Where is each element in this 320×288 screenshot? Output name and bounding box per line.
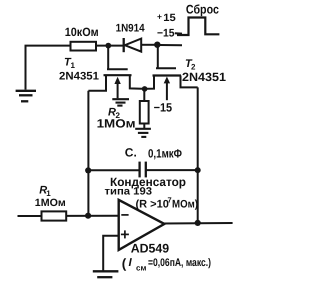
wire plus input to ground bbox=[103, 236, 119, 271]
wire top-left corner bbox=[26, 46, 71, 90]
reset pulse waveform bbox=[177, 18, 219, 36]
wire output bbox=[163, 222, 233, 225]
svg-text:10кОм: 10кОм bbox=[65, 25, 99, 39]
svg-text:(: ( bbox=[122, 256, 127, 271]
wire stub node B to reset pulse bbox=[160, 44, 182, 46]
svg-text:1МОм: 1МОм bbox=[35, 197, 66, 209]
transistor Q2 gate lead bbox=[157, 45, 159, 68]
capacitor C plates bbox=[138, 162, 140, 178]
node F junction dot bbox=[85, 167, 91, 173]
ground G2 under Q1 body bbox=[112, 99, 129, 105]
wire resistor to diode bbox=[96, 45, 123, 47]
transistor Q2 drain lead bbox=[147, 76, 154, 89]
svg-text:типа 193: типа 193 bbox=[105, 185, 153, 197]
transistor Q1 source lead bbox=[130, 75, 142, 89]
wire input stub bbox=[18, 215, 42, 217]
transistor Q1 gate lead bbox=[107, 46, 109, 70]
svg-text:−15: −15 bbox=[157, 28, 175, 40]
diode 1N914 bbox=[123, 38, 125, 52]
svg-text:1: 1 bbox=[71, 61, 76, 70]
svg-text:0,1мкФ: 0,1мкФ bbox=[148, 147, 182, 161]
op-amp minus label bbox=[121, 214, 128, 216]
wire feedback vertical bbox=[197, 87, 199, 223]
resistor R2 box bbox=[140, 101, 149, 124]
ground G1 top-left bbox=[16, 91, 36, 102]
transistor Q1 body arrow bbox=[117, 83, 119, 98]
transistor Q2 channel bbox=[153, 74, 182, 76]
svg-text:=0,06пА, макс.): =0,06пА, макс.) bbox=[148, 257, 211, 269]
ground G4 under R2 bbox=[135, 129, 151, 137]
resistor R2 lead bottom bbox=[143, 124, 145, 129]
svg-text:15: 15 bbox=[163, 12, 176, 24]
wire R1 to op-amp bbox=[66, 215, 119, 217]
node A junction dot bbox=[105, 43, 111, 49]
transistor Q2 body arrow bbox=[166, 82, 168, 100]
transistor Q1 drain lead bbox=[88, 75, 106, 91]
op-amp plus label bbox=[121, 233, 129, 235]
dash from -15 label to pulse bbox=[175, 32, 182, 34]
ground G3 under op-amp bbox=[93, 271, 119, 277]
svg-text:+: + bbox=[157, 11, 162, 21]
svg-text:С.: С. bbox=[125, 146, 137, 160]
wire capacitor right bbox=[146, 169, 198, 171]
resistor R1 box bbox=[42, 211, 67, 220]
node E junction dot (output) bbox=[195, 220, 201, 226]
svg-text:(R >10: (R >10 bbox=[136, 199, 169, 211]
svg-text:AD549: AD549 bbox=[131, 242, 170, 256]
wire capacitor left bbox=[88, 169, 139, 171]
svg-text:1МОм: 1МОм bbox=[97, 116, 136, 130]
transistor Q1 gate plate bbox=[107, 68, 128, 70]
wire diode to node B bbox=[141, 44, 155, 46]
node D junction dot bbox=[195, 167, 201, 173]
svg-text:Сброс: Сброс bbox=[186, 2, 219, 16]
wire left vertical bbox=[87, 91, 89, 216]
resistor R2 lead top bbox=[143, 91, 145, 101]
node G junction dot (summing) bbox=[85, 213, 91, 219]
svg-text:2N4351: 2N4351 bbox=[182, 70, 226, 84]
svg-text:−15: −15 bbox=[154, 101, 173, 115]
svg-text:1N914: 1N914 bbox=[116, 23, 146, 35]
op-amp U1 triangle bbox=[119, 200, 165, 250]
resistor 10kOhm box bbox=[71, 42, 97, 51]
node B junction dot bbox=[154, 42, 160, 48]
node C junction dot bbox=[142, 86, 148, 92]
transistor Q1 channel bbox=[104, 74, 132, 76]
svg-text:см: см bbox=[136, 264, 146, 273]
svg-text:2N4351: 2N4351 bbox=[59, 71, 99, 83]
svg-text:I: I bbox=[129, 257, 133, 269]
transistor Q2 gate plate bbox=[156, 67, 176, 69]
svg-text:МОм): МОм) bbox=[172, 199, 198, 211]
transistor Q2 source lead bbox=[181, 76, 198, 88]
